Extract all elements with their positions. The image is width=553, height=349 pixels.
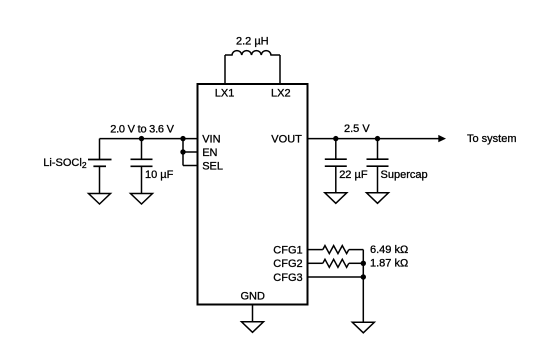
svg-text:SEL: SEL xyxy=(202,161,223,173)
battery BT1 bottom lead xyxy=(99,166,101,193)
node EN junction xyxy=(180,149,185,154)
svg-text:LX1: LX1 xyxy=(215,87,235,99)
ground battery xyxy=(89,194,111,205)
wire R2 to net xyxy=(349,262,364,264)
svg-text:VIN: VIN xyxy=(202,133,220,145)
wire VIN-EN-SEL tie vertical xyxy=(182,139,184,166)
battery BT1 short plate xyxy=(93,165,106,167)
capacitor C2 plates xyxy=(325,159,347,166)
wire EN stub xyxy=(183,151,198,153)
svg-text:LX2: LX2 xyxy=(271,87,291,99)
ground CFG xyxy=(352,322,374,333)
wire CFG3 net xyxy=(308,276,364,278)
ground GND pin xyxy=(242,322,264,333)
capacitor C2 bottom lead xyxy=(335,166,337,193)
svg-text:GND: GND xyxy=(241,290,266,302)
svg-text:10 µF: 10 µF xyxy=(145,169,174,181)
svg-text:2.2 µH: 2.2 µH xyxy=(236,36,269,48)
ground C1 xyxy=(131,194,153,205)
node C2 junction xyxy=(333,136,338,141)
wire LX1 pin xyxy=(224,55,226,84)
capacitor C2 top lead xyxy=(335,139,337,160)
svg-text:22 µF: 22 µF xyxy=(339,169,368,181)
inductor L1 xyxy=(225,51,280,55)
wire VOUT net xyxy=(308,138,440,140)
svg-text:Li-SOCl2: Li-SOCl2 xyxy=(43,157,87,170)
arrow to system xyxy=(438,135,446,142)
svg-text:CFG1: CFG1 xyxy=(273,245,302,257)
wire LX2 pin xyxy=(279,55,281,84)
svg-text:Supercap: Supercap xyxy=(381,169,428,181)
wire CFG vertical net xyxy=(362,250,364,323)
svg-text:To system: To system xyxy=(467,133,517,145)
svg-text:2.5 V: 2.5 V xyxy=(344,123,370,135)
wire SEL stub xyxy=(183,165,198,167)
resistor R1 6.49k xyxy=(323,246,349,254)
battery BT1 long plate xyxy=(88,159,112,161)
wire CFG1 stub xyxy=(308,249,323,251)
svg-text:6.49 kΩ: 6.49 kΩ xyxy=(370,244,408,256)
node CFG3 net junction xyxy=(361,274,366,279)
svg-text:1.87 kΩ: 1.87 kΩ xyxy=(370,258,408,270)
node VIN tie xyxy=(180,136,185,141)
capacitor C3 plates xyxy=(367,159,389,166)
op-amp U1 (IC body) xyxy=(198,84,308,305)
wire R1 to net xyxy=(349,249,364,251)
wire VIN input net xyxy=(100,138,198,140)
ground C3 xyxy=(367,193,389,204)
capacitor C3 top lead xyxy=(377,139,379,160)
ground C2 xyxy=(325,193,347,204)
resistor R2 1.87k xyxy=(323,259,349,267)
node CFG2 net junction xyxy=(361,261,366,266)
capacitor C3 bottom lead xyxy=(377,166,379,193)
wire CFG2 stub xyxy=(308,262,323,264)
svg-text:CFG2: CFG2 xyxy=(273,258,302,270)
capacitor C1 plates xyxy=(131,159,153,166)
capacitor C1 bottom lead xyxy=(141,166,143,193)
node C1 junction xyxy=(139,136,144,141)
svg-text:2.0 V to 3.6 V: 2.0 V to 3.6 V xyxy=(110,123,174,135)
node C3 junction xyxy=(375,136,380,141)
svg-text:EN: EN xyxy=(202,147,217,159)
wire GND pin xyxy=(252,305,254,322)
battery BT1 Li-SOCl2: top lead xyxy=(99,139,101,160)
svg-text:CFG3: CFG3 xyxy=(273,272,302,284)
svg-text:VOUT: VOUT xyxy=(271,133,302,145)
capacitor C1 top lead xyxy=(141,139,143,160)
